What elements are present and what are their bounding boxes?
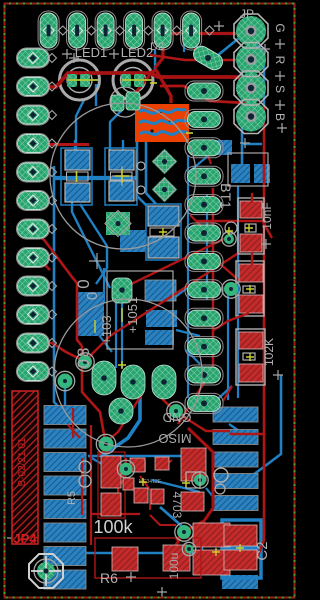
capacitor C9 pad bottom <box>148 237 179 258</box>
wire blue x146 vertical <box>146 142 156 204</box>
pad green U2 top-left <box>112 278 132 303</box>
silkscreen battery circle BT1 top <box>50 103 196 249</box>
connector J2 blue pads right column <box>213 407 258 511</box>
LED2 pad cathode <box>134 74 144 87</box>
wire red thick from pad2 across LEDs <box>36 73 251 88</box>
capacitor C2 pad B red <box>224 550 257 570</box>
LED1 pad anode <box>67 74 77 87</box>
wire red y60 to JP pad2 <box>150 55 244 60</box>
wire blue x188 vertical along D <box>187 155 189 398</box>
connector JP1 big pads right column <box>236 16 266 132</box>
wire red x82 to cluster <box>81 458 83 515</box>
wire blue horizontal y456 <box>88 455 200 458</box>
wire red cluster bits <box>98 448 106 456</box>
module A1 orange footprint <box>135 104 189 142</box>
capacitor C1 blue pad left <box>231 164 250 183</box>
U2 pad 1 blue <box>145 280 176 301</box>
wire red pad7 diagonal route <box>33 229 82 346</box>
U2 pad 3 blue <box>145 330 174 345</box>
wire red inner parallel <box>204 455 206 472</box>
capacitor C9 blue frame <box>146 204 181 260</box>
capacitor C7 silk frame <box>238 198 264 254</box>
capacitor C3 pad A <box>193 523 230 547</box>
svg-text:+1051: +1051 <box>125 297 140 334</box>
silkscreen diamonds top row <box>58 26 214 35</box>
wire red bottom entry diagonal <box>106 394 142 442</box>
resistor R6 pad B <box>163 545 190 571</box>
svg-text:4703: 4703 <box>170 492 184 519</box>
wire blue U2 to D col diagonals <box>174 278 200 298</box>
via right mid B <box>222 232 236 246</box>
via bottom A <box>96 434 115 453</box>
resistor R2 pad B <box>101 493 121 516</box>
wire blue from C5 to LED1 <box>76 100 84 150</box>
wire blue stub under LED gap <box>95 84 97 106</box>
wire blue left bus vertical <box>54 166 70 418</box>
wire blue squiggle 2 over module <box>139 120 187 123</box>
wire blue MISO diagonal <box>210 386 232 406</box>
svg-text:R6: R6 <box>100 570 118 586</box>
LED1 pad cathode <box>80 74 90 87</box>
wire blue squiggle 3 over module <box>140 131 187 134</box>
wire red diagonal D2 <box>86 252 240 360</box>
buzzer BZ1 pad 2 <box>121 365 145 399</box>
wire red bottom extra <box>118 476 126 504</box>
silkscreen outlines D column <box>185 81 223 413</box>
capacitor C7 pad A <box>240 201 262 218</box>
svg-text:S: S <box>273 85 287 93</box>
capacitor C1 blue pad right <box>254 164 270 183</box>
wire blue C5 bottom down-right <box>72 202 110 288</box>
capacitor C6 silk middle box <box>111 172 133 180</box>
wire red D pad5 to C8 <box>196 256 241 282</box>
wire blue C6 bottom down-right <box>80 204 107 284</box>
wire red pad6-top stub <box>194 34 196 52</box>
svg-text:R: R <box>273 56 287 65</box>
buzzer BZ1 pad 4 <box>109 398 133 424</box>
resistor R4 silk frame <box>236 329 265 385</box>
wire blue right bars entry <box>229 424 242 433</box>
pad red small d <box>151 489 164 504</box>
svg-text:JP: JP <box>240 7 254 21</box>
via right mid A <box>222 280 240 298</box>
silkscreen C1 outline <box>228 153 268 186</box>
svg-text:100k: 100k <box>93 517 133 537</box>
wire red cap links <box>251 193 253 203</box>
capacitor C7 pad B <box>240 234 262 252</box>
wire blue x207 vertical <box>206 194 208 300</box>
pad red small c <box>134 488 148 503</box>
sensor U3 pad A <box>111 95 124 111</box>
pad blue next to D pad1 <box>208 140 232 155</box>
sensor U3 pad B <box>126 92 140 110</box>
diode D1 diamond pad A <box>152 149 177 174</box>
buzzer BZ1 pad 3 <box>152 365 176 399</box>
wire blue C6 to LED2 <box>110 110 122 150</box>
via bottom D <box>182 542 195 555</box>
capacitor C3 pad B <box>193 550 230 575</box>
svg-text:R5: R5 <box>66 491 78 505</box>
silkscreen diamonds D1 <box>154 151 176 173</box>
capacitor C5 pad bottom <box>65 183 90 202</box>
wire blue above LED2 <box>154 50 156 70</box>
pad red small b <box>155 457 169 470</box>
svg-text:G: G <box>273 23 287 32</box>
svg-text:BT1: BT1 <box>218 183 234 209</box>
silkscreen diamond mid pad <box>105 211 131 237</box>
wire blue diag to via C <box>160 507 184 528</box>
pad blue above U2 <box>120 230 146 252</box>
silkscreen outlines left column <box>17 48 50 382</box>
wire red diagonal D1 to U2 pad <box>123 238 226 288</box>
capacitor C5 blue frame <box>61 148 92 205</box>
wire red MISO diag red <box>223 386 232 401</box>
capacitor C6 pad bottom <box>109 181 134 201</box>
diode D1 diamond pad B <box>152 177 177 202</box>
silkscreen circle right mid <box>225 222 237 234</box>
silkscreen line right of C6 <box>135 150 137 201</box>
svg-text:B-02/21.01: B-02/21.01 <box>17 437 28 486</box>
resistor R4 pad A <box>239 332 263 349</box>
via mid-left A <box>76 353 94 371</box>
svg-text:MISO: MISO <box>158 431 191 446</box>
pad red small e <box>123 478 134 490</box>
capacitor C8 pad A <box>239 264 263 282</box>
courtyard R6 outline bottom <box>95 538 201 578</box>
zone blue left square <box>76 292 104 336</box>
pad red small a <box>130 458 145 472</box>
silkscreen outlines top row <box>38 11 202 50</box>
wire red pad8 stub <box>33 258 50 271</box>
capacitor C5 silk middle box <box>67 172 89 181</box>
svg-text:+103: +103 <box>99 315 114 344</box>
connector J3 blue pads left column <box>44 406 86 590</box>
svg-text:102K: 102K <box>262 338 276 366</box>
capacitor C9 silk middle box <box>150 228 174 236</box>
wire blue U2 left verticals <box>103 268 105 303</box>
pad square green mid <box>106 212 130 235</box>
ratsnest yellow marks <box>68 79 152 81</box>
wire blue via diag <box>90 457 126 470</box>
wire red to sensor pad <box>133 72 152 97</box>
connector JP3 pads left column <box>18 49 49 381</box>
svg-text:GND: GND <box>163 410 192 425</box>
svg-text:C2: C2 <box>254 541 271 560</box>
resistor R6 pad A <box>112 547 138 571</box>
mounting hole JP4 bottom-left pad <box>29 554 63 588</box>
wire blue right top route <box>196 38 264 106</box>
silkscreen LED2 rings <box>113 60 153 100</box>
wire red LED2 right diagonal <box>150 70 171 103</box>
capacitor C6 blue frame <box>105 148 137 205</box>
silkscreen bottom rect <box>186 472 200 488</box>
capacitor C6 pad top <box>109 150 134 170</box>
silkscreen sensor ring <box>110 87 140 117</box>
wire blue right lower bend <box>253 375 281 475</box>
capacitor C5 pad top <box>65 150 90 170</box>
capacitor C8 silk frame <box>236 261 264 316</box>
svg-text:0: 0 <box>84 292 101 300</box>
wire red diag pad3 <box>190 215 206 231</box>
wire blue thick center down <box>102 368 140 456</box>
wire red pad4 stub to C5 <box>33 143 89 146</box>
resistor R4 pad B <box>239 364 263 382</box>
via bottom B <box>117 460 134 477</box>
wire red bars-right vertical x91 <box>90 425 92 545</box>
wire blue D pad2 diag <box>190 155 209 171</box>
wire blue mid pad diag <box>126 230 142 244</box>
wire red y86 y101 to JP pad4 <box>160 86 251 110</box>
wire blue bottom horizontal y553 <box>60 552 202 555</box>
svg-text:LED2: LED2 <box>121 45 154 60</box>
wire blue via links mid-left <box>64 380 66 406</box>
svg-text:D2: D2 <box>150 41 164 53</box>
wire red around right of connector <box>176 428 213 563</box>
capacitor C9 pad top <box>148 206 179 226</box>
capacitor C2 blue frame <box>222 520 261 578</box>
wire blue right of C6 down <box>137 140 147 206</box>
wire red x213 long vertical <box>178 188 213 424</box>
courtyard R2 outline <box>98 452 125 518</box>
silkscreen diamonds left column <box>48 54 57 377</box>
wire red via GND diagonals <box>157 394 230 431</box>
wire red long right vertical <box>253 106 264 568</box>
wire blue diagonal y485 <box>152 480 200 492</box>
wire red pad11 join <box>33 343 82 360</box>
wire blue right mid verticals <box>227 288 229 400</box>
silkscreen LED1 rings <box>60 60 100 100</box>
silkscreen circles near J2 <box>214 468 228 482</box>
silkscreen battery circle BT2 bottom <box>54 299 202 447</box>
silkscreen crosses <box>62 49 72 59</box>
wire red D pad1 stub <box>206 150 211 164</box>
resistor R2 pad A <box>101 456 121 488</box>
buzzer BZ1 pad 1 <box>92 361 116 395</box>
keepout zone JP4 <box>12 391 38 544</box>
silkscreen U2 outline <box>107 271 173 349</box>
svg-text:08: 08 <box>74 346 93 369</box>
svg-text:10nF: 10nF <box>260 202 274 229</box>
via bottom C <box>175 523 193 541</box>
wire blue pad6 stub <box>183 38 185 52</box>
wire red y433 to right <box>230 433 264 435</box>
capacitor C4 pad A <box>181 448 206 481</box>
wire red pad9 down route <box>33 285 44 288</box>
connector JP5 pads top row <box>40 13 200 48</box>
wire red bars top diagonals <box>68 425 80 438</box>
svg-text:100u: 100u <box>167 553 181 580</box>
svg-text:0: 0 <box>74 279 93 288</box>
wire blue top right horizontal <box>242 143 262 145</box>
connector J2 last blue pad <box>222 575 258 589</box>
capacitor C4 pad B <box>181 492 204 511</box>
U2 pad 2 blue <box>146 310 177 327</box>
via GND <box>167 402 185 420</box>
via bottom E <box>192 472 208 488</box>
svg-text:LED1: LED1 <box>75 45 108 60</box>
wire blue C2 stub <box>201 534 203 552</box>
wire red up to JP pad1 <box>155 34 244 69</box>
LED2 pad anode <box>121 74 131 87</box>
silkscreen octagons JP1 <box>234 14 268 134</box>
svg-text:B: B <box>273 113 287 121</box>
silkscreen circles R2 left <box>79 461 91 473</box>
connector JP2 pads right column D <box>191 43 226 72</box>
silkscreen circles right of C6 <box>137 162 145 170</box>
svg-text:JP4: JP4 <box>13 531 37 546</box>
wire red x82 vertical down <box>82 346 105 440</box>
wire blue vertical x242 <box>241 54 244 165</box>
capacitor C2 pad A red <box>224 525 257 546</box>
wire blue C5 top entry <box>75 140 123 150</box>
wire blue squiggle 1 over module <box>139 109 186 113</box>
via mid-left B <box>55 371 74 390</box>
wire red y220 horizontal <box>196 220 266 222</box>
capacitor C8 pad B <box>239 295 263 313</box>
